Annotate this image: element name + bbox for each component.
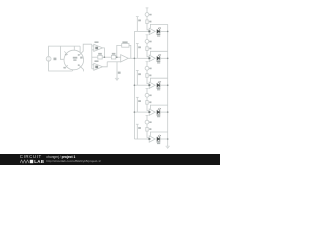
wire U3 input A [92,64,94,66]
resistor R52 [146,128,152,132]
wire resistor to comparator 1 [147,24,149,30]
wire collector loop 1 [150,24,167,28]
wire collector loop 4 [150,105,167,109]
footer bar [0,154,220,165]
resistor R42 [146,101,152,105]
wire LED to rail 1 [160,30,168,32]
wire U4 output [128,57,134,59]
wire flag to resistor 3 [146,70,148,74]
comparator Q2 [148,55,155,61]
ground at rail bottom [166,146,170,148]
LED D5 [157,135,161,144]
power flag block 2 [145,35,152,44]
wire drive row 3 [134,84,149,86]
node flag 2 [136,44,141,59]
comparator Q5 [148,136,155,142]
wire LED to rail 2 [160,57,168,59]
wire top rail drop NE [79,46,81,53]
wire U1 SE pin [79,65,83,71]
rotary sensor U1 [63,50,83,70]
LED D3 [157,81,161,90]
node flag 4 [136,97,141,112]
wire summing row [92,56,98,58]
resistor R22 [146,47,152,51]
wire V1 to bottom rail [49,61,73,71]
wire R1 to R2 [102,56,111,58]
wire drive row 1 [134,30,149,32]
wire output bus [133,31,135,139]
wire flag to resistor 2 [146,43,148,47]
comparator Q4 [148,109,155,115]
op-amp U4 [121,55,129,62]
resistor R2 [111,53,115,59]
wire LED to rail 4 [160,111,168,113]
power flag block 1 [145,8,152,17]
wire bottom riser [71,70,73,71]
attribution text [46,155,75,159]
node flag 5 [136,124,141,139]
wire resistor to comparator 2 [147,50,149,56]
wire U2 input A [92,45,94,47]
CircuitLab logo [20,154,42,159]
resistor R12 [146,20,152,24]
wire flag to resistor 1 [146,16,148,20]
node flag 1 [136,17,141,32]
wire collector loop 3 [150,78,167,82]
wire input bus [91,44,93,69]
resistor R3 [122,41,129,47]
wire feedback tap [117,45,122,57]
wire resistor to comparator 5 [147,131,149,137]
wire drive row 5 [134,138,149,140]
op-amp U2 [94,41,103,51]
ground flag [115,62,121,81]
wire R3 to output [129,45,131,58]
wire collector loop 5 [150,132,167,136]
wire U3 output [103,62,108,67]
wire drive row 4 [134,111,149,113]
power flag block 4 [145,89,152,98]
op-amp U3 [94,60,103,70]
comparator Q1 [148,28,155,34]
wire R2 to U4 [116,56,121,58]
power flag block 5 [145,116,152,125]
wire resistor to comparator 3 [147,77,149,83]
power flag block 3 [145,62,152,71]
wire flag to resistor 4 [146,97,148,101]
wire U2 output [103,48,105,57]
schematic canvas [0,0,220,165]
wire V1 to top rail [49,46,81,56]
wire LED to rail 3 [160,84,168,86]
node flag 3 [136,70,141,85]
wire flag to resistor 5 [146,124,148,128]
wire drive row 2 [134,57,149,59]
wire cathode rail [167,24,169,146]
resistor R32 [146,74,152,78]
comparator Q3 [148,82,155,88]
wire U2 input B [92,49,94,51]
junction dots [104,31,169,140]
LED D2 [157,54,161,63]
resistor R1 [98,53,102,59]
LED D1 [157,27,161,36]
wire LED to rail 5 [160,138,168,140]
wire collector loop 2 [150,51,167,55]
wire inverting row [107,61,121,63]
wire U3 input B [92,68,94,70]
wire top rail drop to top pin [73,46,75,50]
wire resistor to comparator 4 [147,104,149,110]
voltage source V1 [46,56,56,61]
wire U1 NE pin to bus [79,44,92,55]
LED D4 [157,108,161,117]
wire top rail drop to left pin [60,46,63,59]
